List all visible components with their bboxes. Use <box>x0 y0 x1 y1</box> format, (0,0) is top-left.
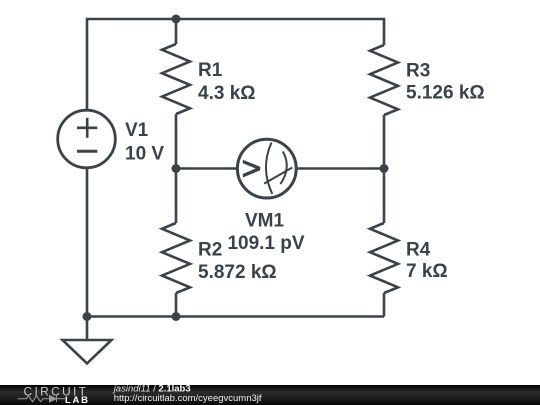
wire voltmeter right lead <box>297 167 384 170</box>
svg-text:10 V: 10 V <box>125 144 164 165</box>
wire voltmeter left lead <box>176 167 237 170</box>
wire top horizontal <box>87 19 384 111</box>
svg-text:4.3 kΩ: 4.3 kΩ <box>198 83 256 104</box>
svg-text:VM1: VM1 <box>245 211 285 232</box>
node junction bottom-mid <box>172 312 181 321</box>
voltmeter VM1 <box>237 139 296 198</box>
svg-text:R4: R4 <box>406 239 431 260</box>
wire R3 bottom to right mid node <box>383 115 386 223</box>
voltage source V1 <box>58 110 116 168</box>
wire left vertical below V1 <box>86 168 89 317</box>
svg-text:http://circuitlab.com/cyeegvcu: http://circuitlab.com/cyeegvcumn3jf <box>114 393 262 404</box>
node junction mid-left <box>172 164 181 173</box>
svg-text:R1: R1 <box>198 60 223 81</box>
node junction top <box>172 15 181 24</box>
svg-text:7 kΩ: 7 kΩ <box>406 261 448 282</box>
resistor R4 <box>370 223 398 293</box>
svg-text:5.872 kΩ: 5.872 kΩ <box>198 262 277 283</box>
ground <box>63 317 112 364</box>
wire R2 bottom lead <box>175 293 178 317</box>
CircuitLab logo squiggle resistor+diode <box>18 396 66 402</box>
resistor R3 <box>370 45 398 115</box>
footer bar <box>0 385 540 405</box>
svg-text:R2: R2 <box>198 240 222 261</box>
wire bottom horizontal <box>87 315 384 318</box>
node junction bottom-left <box>83 312 92 321</box>
svg-text:R3: R3 <box>406 60 430 81</box>
wire R1 bottom to mid node <box>175 114 178 223</box>
wire R4 bottom lead <box>383 293 386 317</box>
resistor R1 <box>162 44 190 114</box>
svg-text:V1: V1 <box>125 120 149 141</box>
resistor R2 <box>162 223 190 293</box>
node junction mid-right <box>380 164 389 173</box>
wire middle branch: R1 top lead <box>175 19 178 44</box>
svg-text:5.126 kΩ: 5.126 kΩ <box>406 83 485 104</box>
svg-text:109.1 pV: 109.1 pV <box>227 233 304 254</box>
svg-text:LAB: LAB <box>65 395 90 405</box>
